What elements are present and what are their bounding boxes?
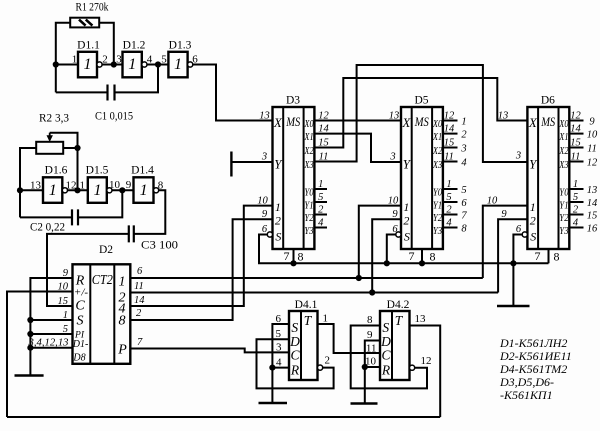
label Y0 inside D6 <box>559 187 568 198</box>
label Y3 inside D3 <box>304 226 313 237</box>
svg-text:1: 1 <box>403 200 409 214</box>
svg-text:7: 7 <box>284 249 290 263</box>
wire: D5 output stub pin 5 <box>443 201 458 203</box>
pin 2 of D1.1 <box>102 54 108 66</box>
junction D4.2 D/reset ground tie <box>362 364 368 370</box>
svg-text:4: 4 <box>446 218 452 229</box>
pin 2 of D6 <box>573 205 579 216</box>
svg-text:5: 5 <box>446 192 451 203</box>
pin 13 of D6 <box>498 111 509 122</box>
label D inside D4.1 <box>289 334 300 349</box>
terminal 14 at D6 pin 5 <box>587 198 598 209</box>
svg-text:9: 9 <box>262 209 268 220</box>
label D2 <box>99 244 113 256</box>
svg-text:C: C <box>290 348 300 363</box>
wire: D6 output stub pin 5 <box>569 201 583 203</box>
svg-text:X1: X1 <box>432 132 442 143</box>
wire: D3 output X0 (pin 12) to D5 input X (pin 13) <box>314 120 401 122</box>
svg-text:1: 1 <box>94 182 102 199</box>
wire: D6 strobe pin 6 to bus and ground <box>513 235 522 307</box>
label C inside D2 <box>75 299 85 314</box>
label X inside D3 <box>273 115 283 130</box>
pin 15 of D3 <box>318 138 329 149</box>
label X0 inside D3 <box>304 119 314 130</box>
pin 9 of D1.4 <box>126 179 132 191</box>
label D1.1 <box>77 40 100 52</box>
pin 1 of D6 <box>573 179 578 190</box>
wire: D2 data pins 3,4,12,13 to ground rail <box>30 347 72 349</box>
svg-text:6: 6 <box>461 198 467 209</box>
junction R2 wiper/right lead <box>74 145 80 151</box>
label C inside D4.2 <box>381 348 391 363</box>
wire: node A to D1.1 input pin 1 <box>56 64 78 66</box>
pin 13 of D4.2 <box>415 313 427 325</box>
svg-text:10: 10 <box>388 196 399 207</box>
ground symbol for D4.1 <box>259 402 288 405</box>
wire: node C to D1.3 input pin 5 <box>147 64 168 66</box>
svg-text:1: 1 <box>140 182 148 199</box>
svg-text:1: 1 <box>275 200 281 214</box>
svg-text:11: 11 <box>587 143 597 154</box>
junction node B <box>111 61 117 67</box>
svg-text:10: 10 <box>257 196 268 207</box>
label MS inside D3 <box>285 115 300 129</box>
label MS inside D5 <box>414 115 429 129</box>
pin 5 of D6 <box>573 192 578 203</box>
inverter D1.5 <box>88 177 107 203</box>
label PI inside D2 <box>74 331 85 341</box>
svg-text:15: 15 <box>58 296 69 307</box>
pin 1 of D1.1 <box>72 54 78 66</box>
wire: D3 output X2 (pin 15) to D6 input X (pin 13) <box>314 78 527 148</box>
wire: D6 select 2 (pin 9) to D2 output 2 <box>498 219 527 292</box>
svg-text:D1-К561ЛН2: D1-К561ЛН2 <box>499 336 567 350</box>
wire: R2 right lead <box>63 147 77 149</box>
wire: D2 carry out P (pin 7) to D4.1 clock <box>130 349 289 353</box>
pin 5 of D5 <box>446 192 451 203</box>
label Y0 inside D3 <box>304 187 313 198</box>
pins 3,4,12,13 of D2 <box>27 338 68 349</box>
pin 14 of D3 <box>318 124 329 135</box>
svg-text:C2 0,22: C2 0,22 <box>30 222 65 234</box>
flip-flop D4.1 inner divider <box>300 311 302 380</box>
svg-text:D4-К561ТМ2: D4-К561ТМ2 <box>499 362 567 376</box>
svg-text:6: 6 <box>276 313 282 325</box>
wire: D4.1 output pin 1 to D4.2 clock pin 11 <box>318 324 381 353</box>
pin 5 of D3 <box>318 192 323 203</box>
wire: bottom feedback net (D4.2 Q to D2 pin 10) <box>7 416 440 418</box>
label X2 inside D6 <box>558 146 568 157</box>
pin 2 of D3 <box>318 205 324 216</box>
label S inside D4.2 <box>382 320 389 335</box>
svg-text:X: X <box>401 115 411 130</box>
svg-text:X0: X0 <box>304 119 314 130</box>
label CT2 inside D2 <box>92 273 113 288</box>
svg-text:5: 5 <box>461 185 466 196</box>
pin 3 of D4.1 <box>276 341 282 353</box>
svg-text:R2 3,3: R2 3,3 <box>39 113 69 125</box>
wire: R2 left lead down to node D <box>20 148 36 217</box>
svg-text:1: 1 <box>318 179 323 190</box>
label R1 270k <box>76 2 109 14</box>
svg-text:Y0: Y0 <box>559 187 568 198</box>
label D1.4 <box>131 165 154 177</box>
svg-text:X: X <box>528 115 538 130</box>
wire: D3 output X3 (pin 11) to D6 input Y (pin 3) <box>314 65 527 162</box>
multiplexer D6 inner dividers <box>538 107 558 249</box>
svg-text:8: 8 <box>367 314 373 326</box>
ground tick on D3 input Y <box>230 152 232 177</box>
wire: D4.1 reset pin 4 to ground rail <box>272 367 289 369</box>
pin 9 of D5 <box>392 209 398 220</box>
svg-text:X2: X2 <box>558 146 568 157</box>
svg-text:X2: X2 <box>304 146 314 157</box>
pin 7 of D5 <box>409 249 415 263</box>
label Y1 inside D6 <box>559 200 568 211</box>
svg-text:S: S <box>77 313 84 328</box>
pin 7 of D3 <box>284 249 290 263</box>
wire: D3 strobe pin 6 to output bus <box>259 235 294 264</box>
svg-text:2: 2 <box>275 214 281 228</box>
svg-text:1: 1 <box>63 310 68 321</box>
wire: D5 output stub pin 12 <box>443 120 458 122</box>
pin 13 of D1.6 <box>30 180 42 192</box>
svg-text:D5: D5 <box>414 95 428 107</box>
svg-text:16: 16 <box>587 223 598 234</box>
svg-text:2: 2 <box>530 214 536 228</box>
svg-text:Y0: Y0 <box>304 187 313 198</box>
label Y inside D6 <box>529 157 538 172</box>
terminal 3 at D5 pin 15 <box>460 143 466 154</box>
pin 2 of D4.1 <box>325 355 331 367</box>
wire: node E to D1.5 input pin 11 <box>68 189 88 191</box>
svg-text:11: 11 <box>444 152 454 163</box>
pin 9 of D3 <box>262 209 268 220</box>
counter D2 outline <box>73 264 131 364</box>
junction D5 stub on bus <box>419 260 425 266</box>
label D8 inside D2 <box>72 353 85 364</box>
wire: D6 output stub pin 2 <box>569 214 583 216</box>
pin 8 of D4.2 <box>367 314 373 326</box>
wire: D5 strobe pin 6 to bus <box>387 235 396 264</box>
terminal 6 at D5 pin 5 <box>461 198 467 209</box>
junction node C <box>155 61 161 67</box>
inverter D1.2 output bubble <box>142 62 147 67</box>
junction D3 stub on bus <box>290 260 296 266</box>
pin 6 of D1.3 <box>192 54 198 66</box>
multiplexer D5 inner dividers <box>412 107 432 249</box>
wire: D2 output 1 (pin 6) to D5/D6 select lines <box>130 277 483 279</box>
svg-text:11: 11 <box>134 281 144 292</box>
pin 13 of D3 <box>259 111 270 122</box>
wire: D3 output Y stub pin 5 <box>314 201 327 203</box>
label 2 inside D3 <box>275 214 281 228</box>
svg-text:12: 12 <box>421 355 432 367</box>
svg-text:C: C <box>381 348 391 363</box>
pin 11 of D6 <box>571 152 581 163</box>
svg-text:9: 9 <box>589 116 595 127</box>
junction on ground rail at pin 5 <box>27 331 33 337</box>
svg-text:7: 7 <box>409 249 415 263</box>
svg-text:9: 9 <box>63 268 69 279</box>
pin 5 of D1.3 <box>161 54 167 66</box>
wire: D5 output stub pin 15 <box>443 147 458 149</box>
svg-text:1: 1 <box>446 179 451 190</box>
svg-text:3,4,12,13: 3,4,12,13 <box>27 338 68 349</box>
svg-text:D1.2: D1.2 <box>123 40 146 52</box>
pin 7 of D6 <box>535 249 541 263</box>
wire: D5 output stub pin 11 <box>443 161 458 163</box>
svg-text:1: 1 <box>323 313 329 325</box>
svg-text:6: 6 <box>392 224 398 235</box>
label C inside D4.1 <box>290 348 300 363</box>
wire: D3 output Y stub pin 2 <box>314 214 327 216</box>
junction node D (D1.6 input) <box>17 187 23 193</box>
pin 4 of D5 <box>446 218 452 229</box>
label X3 inside D5 <box>432 160 442 171</box>
svg-text:10: 10 <box>587 129 598 140</box>
inverter D1.4 output bubble <box>154 188 159 193</box>
wire: D6 output stub pin 1 <box>569 188 583 190</box>
svg-text:X3: X3 <box>558 160 568 171</box>
junction node A <box>53 61 59 67</box>
svg-text:1: 1 <box>573 179 578 190</box>
wire: node B to D1.2 input pin 3 <box>102 64 122 66</box>
wire: D3 input Y (pin 3) to ground tick <box>231 161 272 163</box>
label D6 <box>541 95 555 107</box>
label C3 100 <box>141 240 178 252</box>
svg-text:P: P <box>117 342 127 357</box>
pin 6 of D2 <box>137 266 143 277</box>
pin 11 of D5 <box>444 152 454 163</box>
svg-text:7: 7 <box>535 249 541 263</box>
pin 12 of D6 <box>570 111 581 122</box>
pin 15 of D5 <box>444 138 455 149</box>
pin 14 of D5 <box>444 124 455 135</box>
terminal 5 at D5 pin 1 <box>461 185 466 196</box>
svg-text:12: 12 <box>444 111 455 122</box>
svg-text:3: 3 <box>276 341 282 353</box>
inverter D1.5 output bubble <box>107 188 112 193</box>
label R inside D2 <box>75 273 85 288</box>
select-input bubble of D3 (pin 6) <box>267 232 272 237</box>
multiplexer D3 inner dividers <box>283 107 303 249</box>
inverter D1.1 output bubble <box>97 62 102 67</box>
svg-text:D8: D8 <box>72 353 85 364</box>
pin 5 of D4.1 <box>276 328 282 340</box>
label 1 inside D3 <box>275 200 281 214</box>
svg-text:2: 2 <box>325 355 331 367</box>
svg-text:2: 2 <box>446 205 452 216</box>
label P inside D2 <box>117 342 127 357</box>
svg-text:8: 8 <box>119 313 126 328</box>
svg-text:14: 14 <box>134 295 145 306</box>
pin 7 of D2 <box>137 337 143 348</box>
pin 10 of D4.2 <box>365 356 377 368</box>
pin 14 of D2 <box>134 295 145 306</box>
label 4 inside D2 <box>119 301 126 316</box>
wire: D3 output Y stub pin 4 <box>314 227 327 229</box>
parts list line 4 <box>499 375 554 389</box>
svg-text:Y3: Y3 <box>433 226 442 237</box>
svg-text:3: 3 <box>261 152 267 163</box>
svg-text:S: S <box>275 230 281 244</box>
label X1 inside D6 <box>558 132 568 143</box>
svg-text:X2: X2 <box>432 146 442 157</box>
pin 3 of D6 <box>515 151 521 162</box>
svg-text:13: 13 <box>587 185 598 196</box>
terminal 9 at D6 pin 12 <box>589 116 595 127</box>
svg-text:MS: MS <box>540 115 555 129</box>
junction node F (C2 right tap) <box>119 187 125 193</box>
svg-text:8: 8 <box>298 250 304 264</box>
label X inside D5 <box>401 115 411 130</box>
label 1 inside D2 <box>119 274 126 289</box>
svg-text:1: 1 <box>128 56 136 73</box>
pin 10 of D1.5 <box>109 179 121 191</box>
svg-text:-К561КП1: -К561КП1 <box>500 388 553 402</box>
svg-text:11: 11 <box>571 152 581 163</box>
svg-text:D1.5: D1.5 <box>86 165 109 177</box>
terminal 16 at D6 pin 4 <box>587 223 598 234</box>
parts list line 1 <box>499 336 567 350</box>
multiplexer D5 outline <box>401 107 443 249</box>
pin 12 of D3 <box>318 111 329 122</box>
junction D5 select 2 on output-2 line <box>369 289 375 295</box>
svg-text:C1 0,015: C1 0,015 <box>95 111 133 123</box>
svg-text:Y: Y <box>529 157 538 172</box>
wire: D5 output stub pin 1 <box>443 188 458 190</box>
capacitor C3 <box>129 225 134 242</box>
label X inside D6 <box>528 115 538 130</box>
junction node E (D1.6 out / D1.5 in) <box>74 187 80 193</box>
pin 10 of D6 <box>487 196 498 207</box>
svg-text:1: 1 <box>84 56 92 73</box>
pin 12 of D1.6 <box>66 180 77 192</box>
svg-text:7: 7 <box>461 210 467 221</box>
capacitor C1 <box>108 85 115 101</box>
wire: D6 output stub pin 15 <box>569 147 583 149</box>
wire: D6 output stub pin 4 <box>569 227 583 229</box>
label X2 inside D3 <box>304 146 314 157</box>
resistor R1 <box>70 18 99 28</box>
pin 2 of D2 <box>136 308 142 319</box>
svg-text:T: T <box>304 313 313 328</box>
junction D5 strobe on bus <box>384 260 390 266</box>
label D1- inside D2 <box>72 339 89 350</box>
label R inside D4.2 <box>381 363 391 378</box>
label S inside D4.1 <box>291 320 298 335</box>
svg-text:8: 8 <box>430 250 436 264</box>
svg-text:D1.1: D1.1 <box>77 40 100 52</box>
svg-text:D2-К561ИЕ11: D2-К561ИЕ11 <box>499 349 572 363</box>
pin 15 of D6 <box>570 138 581 149</box>
wire: R2 wiper to node E <box>50 133 78 191</box>
svg-text:14: 14 <box>318 124 329 135</box>
junction D6 strobe on bus <box>510 260 516 266</box>
pin 15 of D2 <box>58 296 69 307</box>
svg-text:4: 4 <box>461 157 467 168</box>
svg-text:Y: Y <box>403 157 412 172</box>
pin 6 of D5 <box>392 224 398 235</box>
label X1 inside D3 <box>304 132 314 143</box>
label Y1 inside D5 <box>433 200 442 211</box>
label Y3 inside D6 <box>559 226 568 237</box>
label X1 inside D5 <box>432 132 442 143</box>
svg-text:R1 270k: R1 270k <box>76 2 109 14</box>
svg-text:R: R <box>381 363 391 378</box>
label S inside D5 <box>404 230 410 244</box>
svg-text:C: C <box>75 299 85 314</box>
svg-text:15: 15 <box>570 138 581 149</box>
svg-text:12: 12 <box>318 111 329 122</box>
svg-text:D1.3: D1.3 <box>169 40 192 52</box>
terminal 15 at D6 pin 2 <box>587 210 598 221</box>
pin 6 of D3 <box>262 224 268 235</box>
flip-flop D4.1 outline <box>289 311 318 380</box>
pin 9 of D4.2 <box>367 329 373 341</box>
svg-text:Y: Y <box>274 157 283 172</box>
label D5 <box>414 95 428 107</box>
svg-text:Y0: Y0 <box>433 187 442 198</box>
parts list line 5 <box>500 388 553 402</box>
pin 4 of D3 <box>318 218 324 229</box>
svg-text:3: 3 <box>389 152 395 163</box>
wire: bus under multiplexers <box>294 262 549 264</box>
wire: node F to D1.4 input pin 9 <box>112 189 134 191</box>
wire: D3 supply stub pins 7/8 <box>293 249 295 263</box>
pin 1 of D4.1 <box>323 313 329 325</box>
svg-text:S: S <box>291 320 298 335</box>
label Y1 inside D3 <box>304 200 313 211</box>
label S inside D2 <box>77 313 84 328</box>
wire: D2 up/down pin 10 to bottom feedback net <box>7 292 73 418</box>
wire: node A to C1 left plate <box>56 91 108 93</box>
ground symbol for D6 <box>497 305 530 308</box>
flip-flop D4.2 inner divider <box>391 311 393 380</box>
svg-text:15: 15 <box>587 210 598 221</box>
wire: node D to C2 left plate <box>20 216 72 218</box>
wire: D5 output stub pin 4 <box>443 227 458 229</box>
svg-text:Y1: Y1 <box>304 200 313 211</box>
svg-text:8: 8 <box>554 250 560 264</box>
label S inside D6 <box>530 230 536 244</box>
svg-text:2: 2 <box>318 205 324 216</box>
label 8 inside D2 <box>119 313 126 328</box>
label S inside D3 <box>275 230 281 244</box>
svg-text:9: 9 <box>392 209 398 220</box>
svg-text:D3,D5,D6-: D3,D5,D6- <box>499 375 554 389</box>
flip-flop D4.2 outline <box>380 311 410 380</box>
svg-text:9: 9 <box>501 209 507 220</box>
label T inside D4.1 <box>304 313 313 328</box>
label D1.5 <box>86 165 109 177</box>
svg-text:D4.2: D4.2 <box>387 299 410 311</box>
svg-text:T: T <box>395 313 404 328</box>
junction on ground rail at pin 1 <box>27 317 33 323</box>
svg-text:D6: D6 <box>541 95 555 107</box>
svg-text:1: 1 <box>119 274 126 289</box>
svg-text:13: 13 <box>259 111 270 122</box>
label 2 inside D6 <box>530 214 536 228</box>
svg-text:13: 13 <box>415 313 427 325</box>
pin 10 of D2 <box>58 282 69 293</box>
pin 1 of D3 <box>318 179 323 190</box>
svg-text:15: 15 <box>318 138 329 149</box>
label Y3 inside D5 <box>433 226 442 237</box>
label D1.3 <box>169 40 192 52</box>
pin 11 of D4.2 <box>366 343 377 355</box>
